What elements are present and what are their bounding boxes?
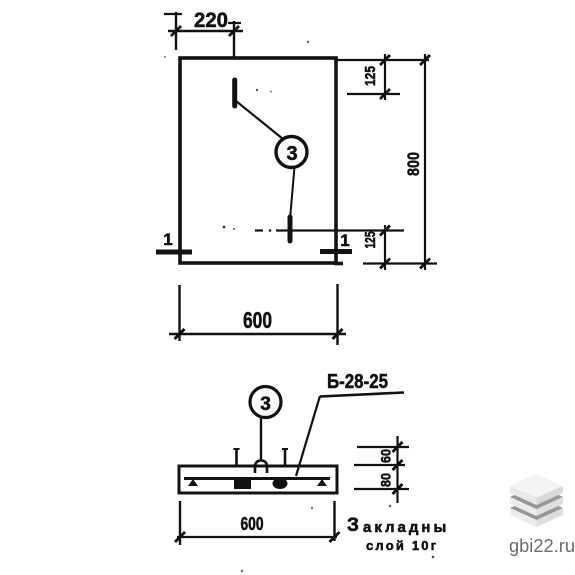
svg-text:600: 600 <box>241 514 264 534</box>
svg-text:220: 220 <box>194 9 228 32</box>
svg-text:80: 80 <box>378 473 394 487</box>
svg-text:З: З <box>347 515 359 536</box>
svg-text:акладны: акладны <box>363 519 449 536</box>
svg-text:3: 3 <box>260 394 271 415</box>
svg-text:60: 60 <box>378 449 394 463</box>
svg-text:1: 1 <box>163 230 172 249</box>
svg-text:слой 10г: слой 10г <box>366 538 438 553</box>
svg-text:3: 3 <box>286 143 297 165</box>
svg-text:125: 125 <box>362 232 379 249</box>
svg-text:gbi22.ru: gbi22.ru <box>509 536 575 556</box>
svg-text:Б-28-25: Б-28-25 <box>327 371 388 393</box>
svg-text:800: 800 <box>404 152 423 176</box>
svg-text:600: 600 <box>243 307 272 333</box>
svg-text:125: 125 <box>362 66 379 86</box>
svg-text:1: 1 <box>340 231 349 250</box>
